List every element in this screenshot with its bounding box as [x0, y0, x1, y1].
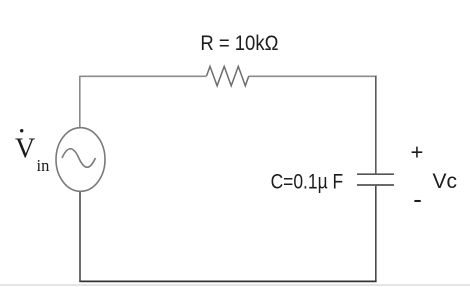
voltage source Vin ellipse	[56, 128, 105, 192]
svg-text:R = 10kΩ: R = 10kΩ	[200, 31, 278, 55]
wire right vertical lower	[375, 186, 377, 282]
wire top-right segment	[249, 75, 377, 77]
wire bottom segment	[79, 280, 376, 282]
svg-text:+: +	[411, 140, 424, 165]
wire left vertical lower	[79, 191, 81, 282]
svg-text:-: -	[413, 184, 422, 214]
separator line bottom	[0, 284, 470, 286]
resistor R zigzag	[207, 66, 249, 85]
wire right vertical upper	[375, 76, 377, 174]
svg-text:Vc: Vc	[433, 170, 458, 193]
wire top-left segment	[80, 75, 207, 77]
svg-text:C=0.1µ F: C=0.1µ F	[271, 170, 344, 193]
label Vin dot above V	[20, 129, 23, 132]
voltage source sine wave	[62, 149, 95, 168]
svg-text:V: V	[15, 134, 35, 165]
svg-text:in: in	[37, 156, 50, 175]
capacitor C top plate	[357, 173, 394, 175]
wire left vertical upper	[79, 76, 81, 128]
capacitor C bottom plate	[357, 184, 394, 186]
